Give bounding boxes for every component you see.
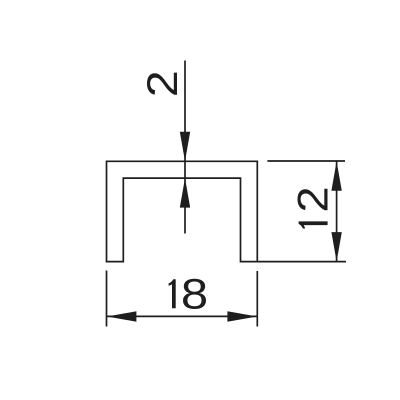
arrowhead pointing left [107,311,136,321]
wire: top extension line of dimension 12 [267,160,345,162]
wire: lower leader line of dimension 2 [184,178,186,233]
wire: upper leader line of dimension 2 [184,61,186,179]
wire: right extension line of dimension 18 [256,271,258,327]
wire: dimension line 18 [107,315,257,317]
wire: bottom extension line of dimension 12 [257,261,346,263]
arrowhead pointing down [331,232,341,262]
svg-text:2: 2 [138,70,187,97]
arrowhead pointing up [331,161,341,191]
value label 12 [289,186,338,228]
arrowhead pointing down at outer top line [180,132,190,162]
arrowhead pointing up at inner top line [180,178,190,208]
value label 18 [169,269,209,317]
wire: dimension line 12 [336,161,338,262]
arrowhead pointing right [227,311,257,321]
wire: left extension line of dimension 18 [106,271,108,327]
U-channel profile outline [107,161,258,261]
svg-text:2: 2 [289,186,338,212]
svg-text:8: 8 [181,269,208,317]
